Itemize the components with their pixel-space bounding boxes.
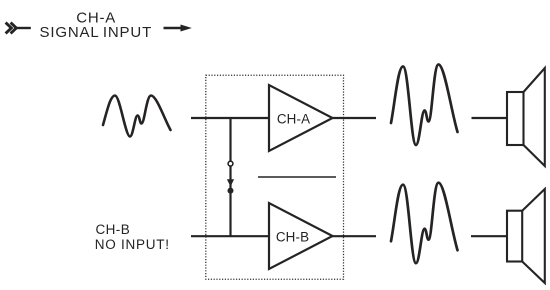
CH-A output waveform	[391, 65, 458, 146]
dashed enclosure box	[206, 75, 344, 279]
junction dot on link	[228, 188, 234, 194]
wire to speaker A	[472, 117, 508, 119]
open circle on link	[228, 161, 233, 166]
arrow after SIGNAL INPUT	[164, 25, 192, 32]
svg-text:CH-A: CH-A	[277, 111, 310, 126]
svg-text:CH-B: CH-B	[276, 229, 309, 244]
input connector chevron symbol	[6, 23, 31, 34]
svg-text:SIGNAL INPUT: SIGNAL INPUT	[39, 24, 152, 41]
wire CH-A output	[333, 117, 377, 119]
svg-text:CH-B: CH-B	[96, 222, 131, 237]
wire CH-A input	[191, 117, 269, 119]
arrowhead down on link	[227, 179, 234, 186]
amplifier CH-B	[269, 203, 333, 269]
amplifier CH-A	[269, 85, 333, 151]
small input waveform CH-A	[103, 96, 171, 137]
wire CH-B input	[191, 235, 269, 237]
separator line between amps	[258, 176, 336, 178]
CH-B output waveform	[391, 183, 458, 264]
wire to speaker B	[471, 235, 507, 237]
speaker B	[507, 189, 545, 283]
vertical link wire	[229, 118, 231, 236]
speaker A	[507, 68, 545, 166]
wire CH-B output	[333, 235, 377, 237]
svg-text:NO INPUT!: NO INPUT!	[95, 237, 170, 252]
